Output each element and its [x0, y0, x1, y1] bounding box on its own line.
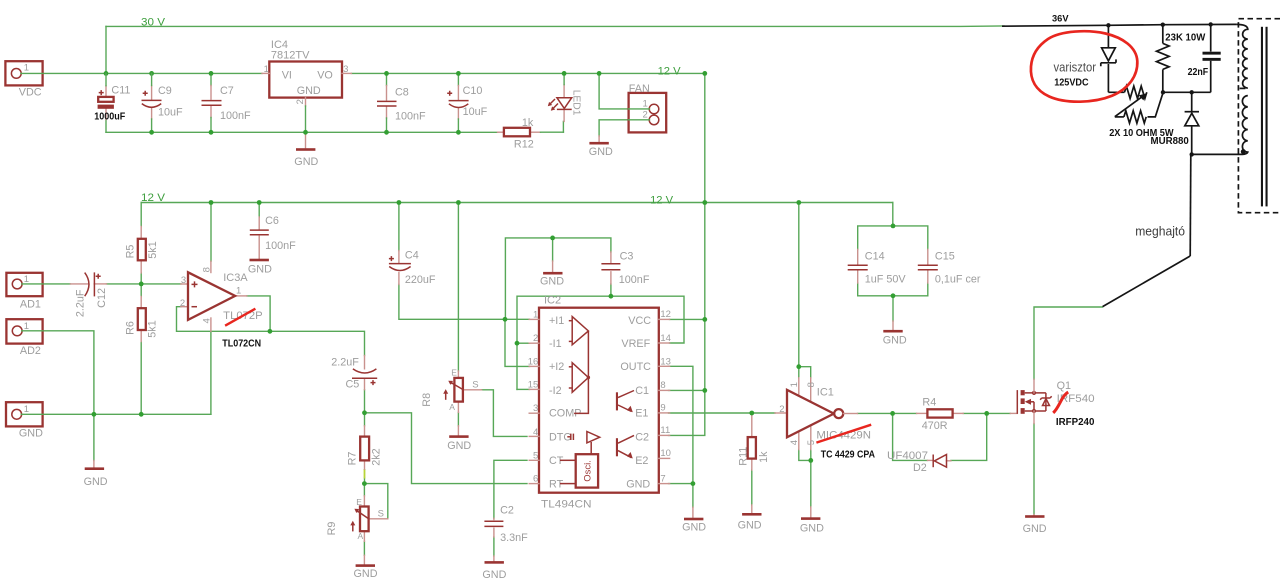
ground FAN: [598, 136, 600, 142]
svg-text:6: 6: [533, 474, 538, 485]
junction dots input ground node: [92, 412, 97, 417]
svg-text:GND: GND: [248, 264, 272, 276]
wire 12V to C4: [398, 203, 400, 251]
svg-text:GND: GND: [682, 522, 706, 534]
svg-text:R6: R6: [125, 321, 137, 335]
ground R11: [751, 505, 753, 513]
svg-text:LED1: LED1: [570, 90, 581, 116]
wire snubber rail left: [1108, 91, 1124, 93]
wire GND/C3 loop above TL494: [505, 238, 611, 319]
wire C14/C15 bottom loop: [858, 283, 928, 296]
svg-text:7812TV: 7812TV: [271, 50, 310, 62]
diode D2 UF4007: [928, 459, 934, 461]
svg-text:8: 8: [202, 267, 213, 272]
wire TL494 pin8 C1: [669, 389, 705, 391]
LED1 emission arrows: [550, 99, 556, 105]
junction dot E1 R11: [749, 411, 754, 416]
svg-text:AD2: AD2: [20, 345, 41, 357]
capacitor C15: [927, 249, 929, 264]
transformer primary winding lower: [1242, 96, 1247, 155]
svg-text:C14: C14: [865, 250, 885, 262]
transistor Q1 IRFP240 mosfet: [1010, 412, 1017, 414]
TL494 internal DTC buffer: [567, 436, 571, 438]
svg-text:A: A: [449, 402, 455, 412]
svg-text:C1: C1: [635, 385, 649, 397]
svg-text:R5: R5: [125, 245, 137, 259]
svg-text:VO: VO: [317, 69, 333, 81]
TL494 internal error amp 1: [572, 317, 588, 345]
wire C5 bottom to node: [364, 390, 366, 413]
svg-text:GND: GND: [297, 85, 321, 97]
TL494 internal error amp 2: [572, 363, 588, 393]
wire node to R4: [893, 412, 917, 414]
svg-text:R4: R4: [922, 397, 936, 409]
svg-text:1: 1: [789, 382, 800, 387]
diode MUR880: [1191, 92, 1193, 111]
wire 12V to trimmer R8: [457, 203, 459, 372]
wire loop ground stem: [552, 238, 554, 261]
wire op-amp output: [247, 296, 270, 331]
junction dot R5 R6 node: [139, 282, 144, 287]
svg-text:C4: C4: [405, 249, 419, 261]
svg-text:36V: 36V: [1052, 14, 1069, 25]
svg-text:Osci.: Osci.: [582, 460, 593, 482]
capacitor C5: [364, 356, 366, 369]
svg-text:S: S: [378, 509, 384, 520]
wiper arrow across resistors: [1115, 96, 1143, 117]
svg-text:E1: E1: [635, 408, 648, 420]
resistor R5: [140, 227, 142, 239]
wire AD2 to GND node: [22, 331, 94, 415]
svg-text:1: 1: [24, 62, 29, 73]
svg-text:2: 2: [533, 333, 538, 344]
wire 12V to C6: [258, 203, 260, 218]
svg-text:VCC: VCC: [628, 315, 651, 327]
svg-text:IRFP240: IRFP240: [1056, 417, 1095, 428]
wire C4 bottom to +I1: [399, 285, 530, 320]
junction dot IC1 output node: [890, 411, 895, 416]
svg-text:S: S: [472, 380, 478, 391]
wire AD1 to C12: [22, 283, 71, 285]
resistor R7: [364, 426, 366, 437]
wire TL494 pin13 OUTC down to pin7: [669, 366, 693, 483]
wire 12V to IC1 supply vertical: [798, 203, 800, 367]
red ellipse around varisztor: [1031, 31, 1137, 101]
svg-text:125VDC: 125VDC: [1054, 78, 1088, 89]
TL494 left pin stubs: [529, 318, 539, 320]
wire R7 top leg: [364, 413, 366, 426]
svg-text:E2: E2: [635, 455, 648, 467]
net 12V rail: [141, 202, 893, 204]
svg-text:2: 2: [779, 404, 784, 415]
connector VDC: [5, 61, 42, 85]
svg-text:R11: R11: [738, 447, 750, 466]
wire R8 wiper to TL494 DTC: [482, 390, 527, 437]
svg-text:220uF: 220uF: [405, 274, 436, 286]
junction dot C3 VREF: [609, 294, 614, 299]
wire drive diagonal to Q1 drain: [1103, 256, 1191, 307]
junction dot gate node: [984, 411, 989, 416]
wire VCC C1 C2 tie vertical: [669, 319, 705, 435]
svg-text:TL494CN: TL494CN: [541, 499, 592, 511]
svg-text:R9: R9: [326, 522, 338, 536]
wire bottom ground rail: [106, 131, 498, 133]
svg-text:C12: C12: [96, 288, 108, 308]
svg-text:22nF: 22nF: [1188, 67, 1209, 78]
junction dot C5 node: [362, 410, 367, 415]
ground above TL494: [552, 261, 554, 272]
IC2 TL494CN box: [539, 308, 659, 493]
svg-text:12 V: 12 V: [141, 192, 166, 204]
gate driver IC1 MIC4429 triangle: [775, 412, 787, 414]
wire pin7 ground stem: [692, 484, 694, 508]
wire IC1 supply loop: [799, 367, 811, 378]
svg-text:GND: GND: [19, 427, 43, 439]
ground C2: [485, 561, 504, 564]
svg-text:5k1: 5k1: [147, 241, 159, 258]
svg-text:5: 5: [533, 450, 538, 461]
wire op-amp pin4 to GND node: [210, 331, 212, 414]
capacitor C11: [105, 86, 107, 97]
capacitor C2: [493, 518, 495, 519]
svg-text:GND: GND: [84, 476, 108, 488]
TL494 internal comp line: [574, 331, 588, 413]
svg-text:3: 3: [181, 275, 186, 286]
svg-text:D2: D2: [913, 462, 927, 474]
wire D2 right loop: [951, 413, 987, 460]
wire R8 bottom leg: [457, 412, 459, 425]
varistor symbol: [1107, 25, 1109, 48]
resistor R12: [498, 131, 504, 133]
svg-text:2: 2: [180, 298, 185, 309]
wire IC1 ground loop pins 4,5: [799, 450, 811, 461]
svg-text:2k2: 2k2: [370, 448, 382, 465]
svg-text:10uF: 10uF: [463, 106, 488, 118]
wire op-amp feedback pin2 loop: [177, 307, 270, 332]
wire zigzag to junction: [1148, 93, 1164, 117]
wire C14/C15 ground stem: [892, 296, 894, 321]
TL494 internal transistor 2: [616, 438, 618, 456]
wire Q1 drain to transformer: [1034, 307, 1103, 379]
black junction dots: [1106, 23, 1110, 27]
capacitor C12: [70, 283, 88, 285]
svg-text:470R: 470R: [922, 420, 948, 432]
svg-text:GND: GND: [883, 335, 907, 347]
junction dots C14 C15: [891, 224, 896, 229]
svg-text:R8: R8: [421, 393, 433, 407]
connector FAN: [629, 93, 667, 132]
wire FAN pin2 to ground: [599, 120, 649, 136]
diode LED1: [562, 121, 564, 132]
trimmer R9: [363, 496, 365, 507]
wire C11 top leg green: [105, 73, 107, 85]
svg-text:12 V: 12 V: [650, 194, 674, 206]
svg-text:GND: GND: [294, 156, 318, 168]
junction dot pin7 ground: [691, 481, 696, 486]
wire R9 top leg: [363, 484, 365, 496]
resistor R11: [751, 413, 753, 437]
net 30V vertical drop at x=106: [105, 26, 107, 73]
wire IC1 output to node: [858, 412, 893, 414]
svg-text:AD1: AD1: [20, 299, 41, 311]
svg-text:GND: GND: [1023, 523, 1047, 535]
wire C12 to op-amp pin3: [107, 283, 181, 285]
junction dot VCC pin12: [702, 317, 707, 322]
svg-text:4: 4: [533, 427, 538, 438]
svg-text:3.3nF: 3.3nF: [500, 532, 528, 544]
wire +I1 node vertical to +I2: [505, 319, 530, 366]
svg-text:100nF: 100nF: [220, 110, 251, 122]
connector AD2: [6, 319, 42, 343]
svg-text:7: 7: [660, 473, 665, 484]
wire C14/C15 top loop: [858, 226, 928, 250]
svg-text:100nF: 100nF: [395, 111, 426, 123]
svg-text:100nF: 100nF: [265, 240, 296, 252]
wire GND connector node: [22, 413, 211, 415]
svg-text:1: 1: [24, 404, 29, 415]
capacitor C8: [386, 73, 388, 85]
junction dot IC1 supply: [796, 364, 801, 369]
op-amp IC3A: [181, 283, 188, 285]
capacitor C3: [610, 252, 612, 262]
svg-text:GND: GND: [354, 568, 378, 580]
svg-text:100nF: 100nF: [619, 274, 650, 286]
ground TL494 pin7: [692, 507, 694, 517]
ground C14 C15: [892, 321, 894, 330]
resistor 10 ohm upper zigzag: [1125, 86, 1147, 98]
svg-text:+I1: +I1: [549, 315, 564, 327]
svg-text:1000uF: 1000uF: [94, 111, 126, 123]
svg-text:varisztor: varisztor: [1054, 61, 1097, 75]
svg-text:C7: C7: [220, 85, 234, 97]
resistor R4: [917, 412, 928, 414]
red strike on IRF540: [1053, 392, 1068, 413]
svg-text:C5: C5: [346, 379, 360, 391]
wire TL494 pin12 VCC: [670, 318, 705, 320]
ground R8: [457, 426, 459, 435]
junction dot +I1 node: [503, 317, 508, 322]
wire C2 bottom leg: [493, 537, 495, 556]
svg-text:4: 4: [789, 440, 800, 445]
wire R5 top leg: [140, 203, 142, 227]
svg-text:23K 10W: 23K 10W: [1165, 31, 1205, 43]
wire R7 bottom leg: [364, 478, 366, 483]
wire R4 to gate node: [963, 412, 1010, 414]
wire C11 bottom leg green: [105, 120, 107, 133]
junction dots 12V rail: [209, 200, 214, 205]
svg-text:C9: C9: [158, 85, 172, 97]
svg-text:1k: 1k: [522, 117, 534, 129]
transformer core bars: [1261, 27, 1263, 207]
wire AD1 pin line: [22, 283, 43, 285]
svg-text:12 V: 12 V: [658, 65, 682, 77]
svg-text:Q1: Q1: [1057, 380, 1071, 392]
svg-text:C2: C2: [500, 504, 514, 516]
svg-text:FAN: FAN: [629, 83, 650, 95]
capacitor 22nF black: [1210, 24, 1212, 51]
capacitor C6: [258, 217, 260, 229]
wire TL494 pin7 GND: [669, 483, 693, 485]
svg-text:OUTC: OUTC: [620, 361, 651, 373]
wire FAN pin1 from 12V: [599, 73, 649, 109]
svg-text:E: E: [451, 367, 457, 377]
svg-text:C8: C8: [395, 87, 409, 99]
svg-text:1uF 50V: 1uF 50V: [865, 274, 907, 286]
svg-text:C10: C10: [463, 85, 483, 97]
ground C6: [250, 259, 269, 262]
svg-text:GND: GND: [738, 519, 762, 531]
svg-text:5: 5: [806, 440, 817, 445]
svg-text:MUR880: MUR880: [1151, 135, 1189, 147]
svg-text:16: 16: [528, 356, 539, 367]
svg-text:GND: GND: [482, 569, 506, 581]
svg-text:GND: GND: [800, 523, 824, 535]
svg-text:R12: R12: [514, 138, 534, 150]
capacitor C10: [457, 73, 459, 85]
wire FAN pin2 line: [629, 119, 650, 121]
wire IC1 ground stem: [810, 460, 812, 507]
wire VDC pin line: [21, 72, 43, 74]
wire D2 left loop: [893, 413, 928, 460]
svg-text:VREF: VREF: [621, 338, 650, 350]
junction dot R7 R9 node: [362, 481, 367, 486]
wire ground stem at AD node: [93, 414, 95, 460]
wire TL494 CT to C2: [494, 460, 527, 518]
svg-text:GND: GND: [447, 440, 471, 452]
svg-text:8: 8: [806, 382, 817, 387]
capacitor C9: [151, 86, 153, 100]
svg-text:+I2: +I2: [549, 361, 564, 373]
wire R6 top leg: [140, 284, 142, 297]
svg-text:C15: C15: [935, 250, 955, 262]
TL494 internal oscillator: [576, 454, 598, 487]
wire output node to C5: [270, 331, 365, 355]
wire -I2 pin15: [517, 388, 530, 390]
svg-text:3: 3: [533, 403, 538, 414]
svg-text:-I1: -I1: [549, 338, 562, 350]
svg-text:3: 3: [343, 64, 348, 75]
wire Q1 source to ground: [1033, 424, 1035, 515]
wire R7 leg highlight segment: [364, 469, 366, 479]
wire diode node to transformer tap: [1192, 153, 1243, 155]
op-amp regulator IC4 7812TV: [269, 62, 342, 98]
wire VDC-rail to 12V right of IC4: [351, 72, 705, 74]
red strike on TL072P: [225, 309, 255, 326]
svg-text:R7: R7: [346, 452, 358, 466]
junction dot -I1 VREF: [515, 341, 520, 346]
ground IC4: [305, 132, 307, 147]
svg-text:meghajtó: meghajtó: [1135, 223, 1185, 238]
transformer tap tick: [1240, 87, 1246, 89]
wire R9 wiper loop: [364, 484, 387, 519]
wire drive line down: [1189, 154, 1192, 256]
transformer primary winding upper: [1237, 24, 1248, 88]
ground R9: [363, 555, 365, 564]
svg-text:9: 9: [660, 403, 665, 414]
resistor R6: [140, 297, 142, 309]
wire GND connector pin line: [21, 413, 43, 415]
svg-text:C2: C2: [635, 431, 649, 443]
wire snubber rail right: [1163, 91, 1211, 93]
wire C3 bottom leg: [610, 284, 612, 296]
svg-text:12: 12: [660, 309, 671, 320]
svg-text:E: E: [356, 497, 362, 507]
svg-text:C11: C11: [111, 85, 130, 97]
svg-text:A: A: [358, 531, 364, 541]
svg-text:10uF: 10uF: [158, 106, 183, 118]
junction dots ground rail: [149, 130, 154, 135]
svg-text:1: 1: [236, 286, 241, 297]
svg-text:2: 2: [295, 99, 306, 104]
svg-text:TL072CN: TL072CN: [222, 338, 261, 349]
connector AD1: [6, 273, 42, 296]
resistor 10 ohm lower zigzag: [1115, 116, 1124, 118]
wire R9 bottom leg: [363, 541, 365, 555]
svg-text:11: 11: [660, 425, 670, 436]
svg-text:IC1: IC1: [817, 387, 834, 399]
TL494 internal transistor 1: [616, 392, 618, 410]
wire VDC rail left: [22, 72, 263, 74]
svg-text:1: 1: [533, 309, 538, 320]
svg-text:TC 4429 CPA: TC 4429 CPA: [821, 450, 875, 461]
ground IC1: [810, 507, 812, 517]
svg-text:15: 15: [528, 380, 539, 391]
wire R5 bottom to node: [140, 273, 142, 284]
svg-text:30 V: 30 V: [141, 17, 166, 29]
svg-text:4: 4: [202, 318, 213, 323]
svg-text:IC3A: IC3A: [223, 272, 248, 284]
wire 12V vertical x=705: [704, 73, 706, 202]
junction dot C1 pin8: [702, 388, 707, 393]
red strike on MIC4429N: [816, 425, 871, 443]
wire node to TL494 RT: [365, 413, 528, 484]
wire C9 top leg green: [151, 73, 153, 85]
wire R11 lower leg: [751, 470, 753, 505]
net 30V top wire: [106, 25, 1004, 28]
ground Q1: [1033, 514, 1035, 516]
capacitor C4: [398, 251, 400, 263]
wire R6 bottom to GND node: [140, 342, 142, 415]
trimmer R8: [457, 371, 459, 378]
svg-text:2: 2: [643, 110, 648, 121]
svg-text:0,1uF cer: 0,1uF cer: [935, 274, 981, 286]
TL494 right pin stubs: [659, 318, 670, 320]
svg-text:C6: C6: [265, 215, 279, 227]
svg-text:UF4007: UF4007: [887, 450, 928, 462]
svg-text:VDC: VDC: [19, 87, 42, 99]
svg-text:GND: GND: [540, 276, 564, 288]
svg-text:10: 10: [660, 448, 671, 459]
svg-text:IC2: IC2: [544, 295, 561, 307]
wire AD2 pin line: [22, 330, 43, 332]
svg-text:13: 13: [660, 356, 671, 367]
junction dot IC1 ground: [808, 458, 813, 463]
wire 12V to TL494 VCC vertical: [704, 203, 706, 320]
svg-text:2.2uF: 2.2uF: [331, 357, 359, 369]
svg-text:GND: GND: [589, 146, 613, 158]
capacitor C14: [857, 249, 859, 264]
wire 12V to op-amp pin8: [210, 203, 212, 262]
transformer dashed boundary: [1238, 19, 1280, 213]
junction dot op-amp output: [268, 329, 273, 334]
svg-text:14: 14: [660, 333, 671, 344]
wire 36V black continuation of 30V net: [1002, 24, 1237, 26]
svg-text:5k1: 5k1: [147, 320, 159, 337]
svg-text:VI: VI: [282, 69, 292, 81]
svg-text:1k: 1k: [758, 451, 770, 463]
capacitor C7: [210, 73, 212, 85]
ground at input node: [93, 461, 95, 468]
